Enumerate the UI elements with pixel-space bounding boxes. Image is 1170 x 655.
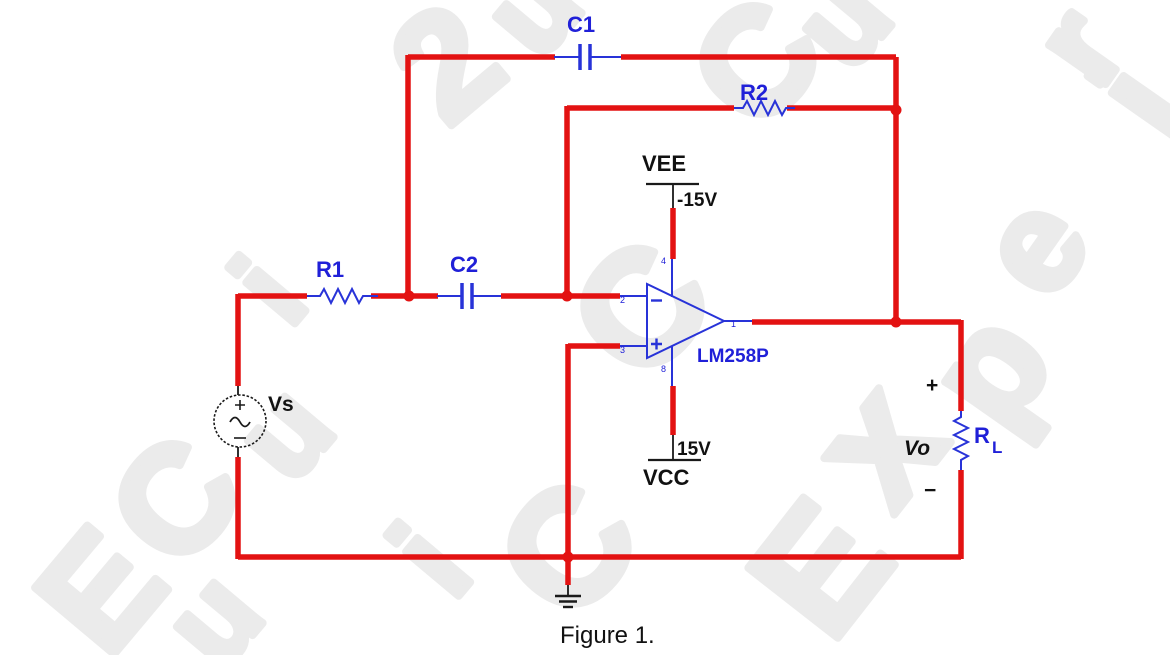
svg-text:C2: C2 [450,252,478,277]
svg-text:Vo: Vo [904,437,930,460]
svg-text:4: 4 [661,256,666,266]
svg-text:Vs: Vs [268,393,294,416]
svg-text:LM258P: LM258P [697,346,769,367]
svg-text:3: 3 [620,345,625,355]
svg-text:VCC: VCC [643,465,690,490]
svg-text:+: + [926,374,938,397]
svg-text:R: R [974,423,990,448]
svg-text:L: L [992,438,1002,457]
svg-text:15V: 15V [677,439,711,460]
svg-text:−: − [924,479,936,502]
svg-text:8: 8 [661,364,666,374]
svg-text:1: 1 [731,319,736,329]
svg-text:2: 2 [620,295,625,305]
svg-text:-15V: -15V [677,190,717,211]
svg-text:e: e [946,168,1119,322]
svg-text:R1: R1 [316,257,344,282]
svg-text:R2: R2 [740,80,768,105]
svg-text:Figure 1.: Figure 1. [560,622,655,649]
svg-text:C1: C1 [567,12,595,37]
svg-text:i: i [207,235,331,347]
svg-text:VEE: VEE [642,151,686,176]
